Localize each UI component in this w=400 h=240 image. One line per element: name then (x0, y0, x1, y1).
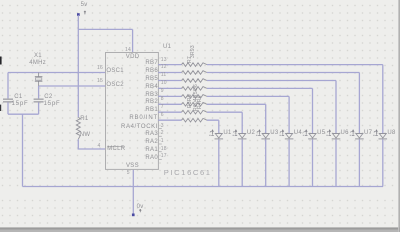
label C2 value (44, 101, 61, 108)
wire RB1 to LED U2 (207, 112, 242, 133)
pin 7 (161, 104, 164, 110)
capacitor C2 (34, 99, 44, 102)
pin RA4 stub (158, 128, 162, 130)
wire RB6 pin stub (158, 72, 181, 74)
pin 6 (161, 112, 164, 118)
pin 18 (161, 146, 167, 152)
pin RA0 stub (158, 158, 162, 160)
wire LED U4 cathode (288, 139, 290, 186)
wire LED U2 cathode (241, 139, 243, 186)
label RA0 (112, 155, 158, 162)
wire RB5 pin stub (158, 80, 181, 82)
wire C1 top (7, 73, 9, 99)
wire ground drop (22, 114, 24, 186)
label 4MHz (29, 60, 46, 67)
pin 8 (161, 96, 164, 102)
IC U1 PIC16C61 body (106, 53, 159, 170)
pin 12 (161, 64, 167, 70)
wire cap join (8, 113, 39, 115)
LED U3 (256, 130, 270, 139)
wire VDD branch horizontal (78, 28, 132, 30)
label U6 (341, 130, 349, 137)
label R7 value rotated (191, 45, 197, 58)
pin 3 (161, 123, 164, 129)
wire VSS to 0V (132, 169, 134, 213)
wire RB3 pin stub (158, 95, 181, 97)
label R7 rotated (188, 56, 194, 63)
node 0V (132, 209, 141, 216)
pin 17 (161, 153, 167, 159)
wire RB7 pin stub (158, 64, 181, 66)
LED U2 (233, 130, 247, 139)
wire RB6 to LED U7 (207, 73, 359, 134)
label PIC16C61 (164, 168, 212, 177)
MCLR overline (107, 145, 123, 147)
resistor R4 (182, 103, 208, 107)
label MCLR (107, 146, 125, 153)
label U7 (364, 130, 372, 137)
label RB6 (112, 68, 158, 75)
wire RB1 pin stub (158, 111, 181, 113)
LED U8 (373, 130, 387, 139)
label OSC2 (106, 82, 124, 89)
wire RB2 to LED U3 (207, 104, 266, 133)
resistor R6 (182, 87, 208, 91)
label R4 R5 values rotated (194, 83, 200, 110)
label X1 (34, 53, 42, 60)
label C1 (14, 94, 22, 101)
pin 4 (88, 143, 101, 149)
resistor R3 (182, 110, 208, 114)
label RB7 (112, 60, 158, 67)
wire OSC2 net (39, 85, 106, 87)
wire RB4 to LED U5 (207, 88, 313, 133)
resistor R7 (182, 79, 208, 83)
wire LED U5 cathode (312, 139, 314, 186)
label 0V (137, 204, 144, 211)
label VDD (126, 54, 140, 61)
wire LED U3 cathode (265, 139, 267, 186)
wire C1 bottom (7, 102, 9, 114)
label U1 (223, 130, 231, 137)
label R3 R5 rotated (188, 94, 194, 108)
resistor R1 (76, 117, 80, 139)
wire C2 top (38, 86, 40, 98)
pin 9 (161, 88, 164, 94)
scrollbar right edge (398, 0, 399, 232)
node 5V (77, 11, 86, 16)
label U4 (294, 130, 302, 137)
wire VDD pin drop (132, 29, 134, 52)
wire RB0 pin stub (158, 119, 181, 121)
wire RB0 to LED U1 (207, 120, 219, 133)
label U1 (163, 44, 171, 51)
wire RB2 pin stub (158, 103, 181, 105)
pin RA1 stub (158, 151, 162, 153)
wire 5V vertical rail (77, 15, 79, 117)
pin 5 (127, 170, 130, 176)
label C1 value (12, 101, 29, 108)
label OSC1 (106, 68, 124, 75)
label RB3 (112, 92, 158, 99)
resistor R5 (182, 95, 208, 99)
label U3 (270, 130, 278, 137)
resistor R9 (182, 63, 208, 67)
label RB0/INT (112, 115, 158, 122)
wire R1 to MCLR (78, 139, 106, 149)
pin 11 (161, 72, 167, 78)
wire LED U1 cathode (218, 139, 220, 186)
window edge artifact left top (0, 57, 2, 65)
pin 13 (161, 57, 167, 63)
label RB2 (112, 99, 158, 106)
label U5 (317, 130, 325, 137)
canvas margin band (no grid) below schematic (0, 189, 400, 200)
crystal X1 (35, 73, 43, 87)
LED U4 (279, 130, 293, 139)
wire LED U6 cathode (335, 139, 337, 186)
LED U7 (350, 130, 364, 139)
LED U1 (209, 130, 223, 139)
label VSS (126, 163, 139, 170)
wire OSC1 net (8, 72, 106, 74)
wire RB5 to LED U6 (207, 81, 336, 134)
label R1 (80, 116, 88, 123)
pin 1 (161, 138, 164, 144)
label U2 (247, 130, 255, 137)
resistor R8 (182, 71, 208, 75)
label RA2 (112, 139, 158, 146)
label R1 value (80, 132, 91, 139)
label RB1 (112, 107, 158, 114)
pin 14 (116, 47, 131, 53)
pin 15 (88, 78, 103, 84)
label RA4/TOCKI (112, 124, 158, 131)
status bar bottom (0, 227, 400, 229)
label U8 (387, 130, 395, 137)
wire LED U7 cathode (358, 139, 360, 186)
wire C2 bottom (38, 102, 40, 114)
LED U6 (326, 130, 340, 139)
pin 10 (161, 80, 167, 86)
window edge artifact left mid (0, 105, 1, 111)
LED U5 (303, 130, 317, 139)
resistor R2 (182, 118, 208, 122)
pin 16 (88, 65, 103, 71)
wire RB7 to LED U8 (207, 65, 383, 134)
label R4 R6 rotated (198, 95, 204, 109)
label RB5 (112, 76, 158, 83)
label RB4 (112, 84, 158, 91)
label RA3 (112, 131, 158, 138)
pin RA3 stub (158, 135, 162, 137)
wire RB4 pin stub (158, 87, 181, 89)
wire RB3 to LED U4 (207, 96, 289, 133)
label C2 (44, 94, 52, 101)
wire LED U8 cathode (382, 139, 384, 186)
pin RA2 stub (158, 143, 162, 145)
label RA1 (112, 147, 158, 154)
capacitor C1 (3, 99, 13, 102)
label 5V (81, 2, 88, 9)
wire cathode bus (23, 186, 384, 188)
pin 2 (161, 130, 164, 136)
